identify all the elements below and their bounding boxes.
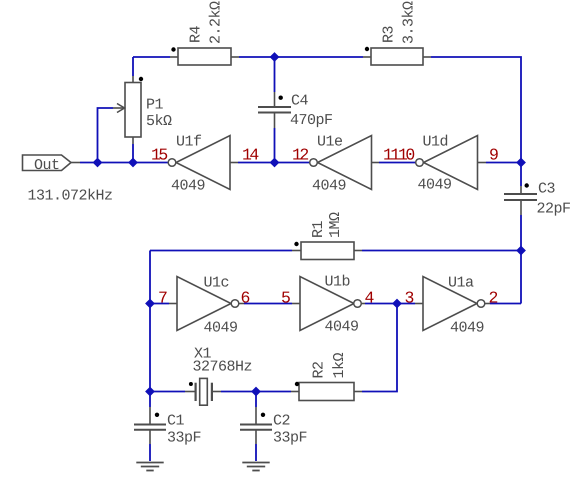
wire R1 left (150, 250, 292, 252)
junction at R1 right node (516, 246, 526, 256)
ground under C2 (242, 463, 269, 471)
svg-text:R4: R4 (188, 25, 205, 43)
node Out flag (23, 155, 81, 174)
junction at C4 pin14-pin12 node (270, 158, 280, 168)
wire C1 to ground (149, 444, 151, 461)
value 4049 of U1c (204, 320, 238, 337)
svg-text:C2: C2 (273, 413, 290, 430)
pin 7 (158, 289, 167, 308)
value 4049 of U1e (312, 178, 346, 195)
label C4 (291, 93, 309, 110)
wire C3 bottom down to pin2 row (520, 215, 522, 304)
junction at crystal left C1 node (145, 387, 155, 397)
svg-text:4049: 4049 (171, 178, 205, 195)
wire pin9 to right bus (486, 162, 521, 164)
label U1a (448, 275, 474, 292)
capacitor C4 (258, 92, 291, 128)
svg-text:15: 15 (151, 146, 167, 165)
svg-text:Out: Out (34, 157, 60, 174)
label R1 (310, 220, 327, 238)
label U1c (204, 275, 230, 292)
svg-text:U1f: U1f (176, 134, 202, 151)
wire pin4 to pin3 (365, 303, 415, 305)
capacitor C1 (134, 407, 166, 444)
svg-text:1MΩ: 1MΩ (327, 212, 344, 238)
svg-text:131.072kHz: 131.072kHz (28, 188, 113, 205)
svg-text:4049: 4049 (325, 319, 359, 336)
pin 9 (489, 146, 498, 165)
op-amp U1f (inverter) (168, 136, 238, 190)
pin 2 (489, 289, 498, 308)
resistor R1 (292, 242, 362, 260)
wire P1 bottom (132, 144, 134, 163)
junction at pin7 node (145, 299, 155, 309)
label U1d (423, 134, 449, 151)
pin 6 (241, 289, 250, 308)
svg-text:22pF: 22pF (537, 201, 571, 218)
svg-text:4049: 4049 (204, 320, 238, 337)
svg-text:1kΩ: 1kΩ (331, 352, 348, 378)
wire C1 top (149, 392, 151, 408)
svg-text:10: 10 (398, 146, 414, 165)
pin 3 (405, 289, 414, 308)
value 4049 of U1b (325, 319, 359, 336)
wire top bus left segment (133, 56, 170, 58)
wire pin7 stub (150, 303, 169, 305)
wire R1 right (362, 250, 521, 252)
junction at pin3 node (392, 299, 402, 309)
label U1b (325, 274, 351, 291)
wire left bus vertical (149, 251, 151, 392)
value 33pF of C2 (273, 430, 307, 447)
pin 12 (292, 146, 308, 165)
value 470pF (290, 112, 333, 129)
label C3 (538, 181, 556, 198)
crystal X1 (185, 378, 221, 405)
svg-text:2.2kΩ: 2.2kΩ (208, 1, 225, 44)
wire C4 bottom (274, 128, 276, 163)
svg-text:33pF: 33pF (167, 430, 201, 447)
wire pin6 to pin5 (244, 303, 292, 305)
junction at crystal right C2 node (251, 387, 261, 397)
svg-text:4049: 4049 (450, 320, 484, 337)
label U1f (176, 134, 202, 151)
pin 14 (242, 146, 259, 165)
wire pin2 to right bus (490, 303, 521, 305)
wire crystal left (150, 391, 185, 393)
svg-text:32768Hz: 32768Hz (193, 359, 253, 376)
junction at P1 bottom node (128, 158, 138, 168)
svg-text:U1b: U1b (325, 274, 351, 291)
value 4049 of U1d (418, 177, 452, 194)
value 22pF (537, 201, 571, 218)
label 131.072kHz (28, 188, 113, 205)
wire C2 to ground (255, 444, 257, 461)
label C2 (273, 413, 290, 430)
svg-text:12: 12 (292, 146, 308, 165)
svg-text:U1d: U1d (423, 134, 449, 151)
junction at Out node left (93, 158, 103, 168)
wire right bus to C3 top (520, 163, 522, 187)
label C1 (167, 413, 185, 430)
value 33pF of C1 (167, 430, 201, 447)
value 32768Hz (193, 359, 253, 376)
junction at R4-R3 top node (270, 52, 280, 62)
label R4 (188, 25, 205, 43)
junction at pin9 right bus node (516, 158, 526, 168)
value 3.3k ohm (401, 1, 418, 44)
svg-text:R1: R1 (310, 220, 327, 238)
capacitor C3 (504, 183, 537, 215)
svg-text:3.3kΩ: 3.3kΩ (401, 1, 418, 44)
value 2.2k ohm (208, 1, 225, 44)
value 1k ohm (331, 352, 348, 378)
svg-text:U1c: U1c (204, 275, 230, 292)
op-amp U1e (inverter) (310, 136, 379, 190)
svg-text:4049: 4049 (312, 178, 346, 195)
wire top bus right segment and right drop (431, 57, 521, 163)
value 4049 of U1f (171, 178, 205, 195)
svg-text:470pF: 470pF (290, 112, 333, 129)
wire pin11 to pin10 (379, 162, 416, 164)
svg-text:U1a: U1a (448, 275, 474, 292)
value 5k ohm (146, 113, 172, 130)
potentiometer P1 (113, 76, 143, 144)
ground under C1 (136, 463, 163, 471)
pin 15 (151, 146, 167, 165)
wire R2 left to crystal node (256, 391, 291, 393)
op-amp U1b (inverter) (292, 277, 365, 331)
svg-text:P1: P1 (146, 97, 164, 114)
svg-text:4049: 4049 (418, 177, 452, 194)
pin 10 (398, 146, 414, 165)
label R2 (311, 361, 328, 378)
wire P1 wiper (98, 108, 114, 163)
svg-text:C4: C4 (291, 93, 309, 110)
wire C4 top (274, 57, 276, 92)
svg-text:R3: R3 (381, 25, 398, 43)
pin 4 (365, 289, 375, 308)
op-amp U1c (inverter) (169, 277, 244, 331)
svg-text:5kΩ: 5kΩ (146, 113, 172, 130)
label R3 (381, 25, 398, 43)
wire crystal right (221, 391, 256, 393)
capacitor C2 (240, 407, 272, 444)
label U1e (317, 134, 343, 151)
label P1 (146, 97, 164, 114)
resistor R4 (170, 47, 239, 65)
svg-text:R2: R2 (311, 361, 328, 378)
wire pin3 node down to R2 (362, 304, 397, 392)
svg-text:C1: C1 (167, 413, 185, 430)
value 1M ohm (327, 212, 344, 238)
wire node pin14 to pin12 (238, 162, 310, 164)
resistor R3 (363, 47, 431, 65)
wire Out row (80, 162, 168, 164)
label X1 (194, 346, 212, 363)
value 4049 of U1a (450, 320, 484, 337)
wire P1 top (132, 57, 134, 76)
svg-text:C3: C3 (538, 181, 556, 198)
svg-text:U1e: U1e (317, 134, 343, 151)
resistor R2 (291, 382, 362, 401)
op-amp U1d (inverter) (416, 136, 486, 190)
pin 5 (281, 289, 290, 308)
pin 11 (383, 146, 400, 165)
svg-text:33pF: 33pF (273, 430, 307, 447)
op-amp U1a (inverter) (415, 277, 490, 331)
wire top bus middle segment (239, 56, 363, 58)
wire C2 top (255, 392, 257, 408)
